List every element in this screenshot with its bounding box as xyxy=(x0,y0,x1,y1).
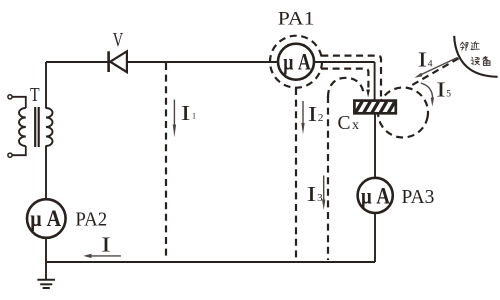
svg-text:I: I xyxy=(181,101,191,125)
svg-text:1: 1 xyxy=(192,111,196,120)
svg-text:I: I xyxy=(101,232,111,256)
svg-text:I: I xyxy=(436,78,446,102)
svg-text:3: 3 xyxy=(317,192,323,204)
svg-text:μ A: μ A xyxy=(283,49,311,74)
svg-text:I: I xyxy=(307,182,317,206)
svg-text:PA1: PA1 xyxy=(278,9,315,29)
svg-text:T: T xyxy=(30,84,40,106)
svg-text:C: C xyxy=(338,113,351,134)
svg-text:μ A: μ A xyxy=(361,183,390,208)
svg-text:x: x xyxy=(352,118,359,133)
svg-text:2: 2 xyxy=(318,112,324,124)
svg-text:5: 5 xyxy=(446,89,451,99)
svg-text:PA2: PA2 xyxy=(75,208,107,230)
svg-text:4: 4 xyxy=(428,59,433,69)
svg-text:V: V xyxy=(113,29,124,51)
svg-text:I: I xyxy=(308,102,318,126)
svg-text:I: I xyxy=(418,47,428,71)
svg-text:μ A: μ A xyxy=(30,206,61,231)
svg-text:PA3: PA3 xyxy=(402,186,435,208)
